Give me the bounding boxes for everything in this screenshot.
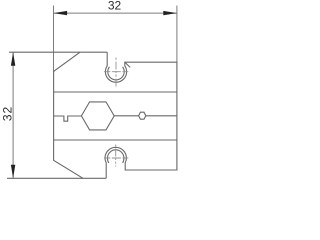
svg-text:32: 32 xyxy=(108,0,122,13)
vertical dimension 32 (left): dim line xyxy=(12,52,14,178)
interior horizontal line A xyxy=(54,91,177,93)
chamfer line at top slot right corner xyxy=(125,62,130,67)
bottom hole inner arc xyxy=(107,150,123,163)
arrowheads top dim xyxy=(54,11,177,15)
svg-text:32: 32 xyxy=(0,106,14,121)
top edge + left extension (merged) xyxy=(9,51,107,53)
mid line C right pieces xyxy=(114,115,138,117)
bottom hole centerlines xyxy=(104,145,128,167)
mid line C left piece with notch xyxy=(54,116,82,121)
arrowheads left dim xyxy=(11,52,15,178)
top hole centerlines xyxy=(104,58,128,87)
interior horizontal line B xyxy=(54,139,177,141)
big hexagon xyxy=(81,102,114,130)
top hole inner arc xyxy=(108,67,124,80)
horizontal dimension 32 (top): dim line + extension lines xyxy=(54,6,177,72)
left edge with chamfers xyxy=(54,52,83,178)
bottom edge + left extension (merged) xyxy=(7,177,106,179)
small hexagon xyxy=(139,112,146,119)
part outline: top slot, right side, bottom slot xyxy=(105,52,177,178)
